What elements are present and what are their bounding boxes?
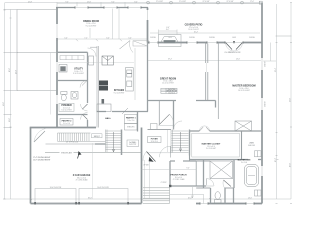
porch west edge x=17 (16, 10, 18, 91)
south wall windows (200, 202, 254, 204)
door arcs master to closet (double) (199, 126, 209, 131)
bathtub (245, 165, 259, 187)
kitchen island (dark) (99, 81, 108, 91)
wall great room south y=100.5 a (148, 100, 177, 102)
svg-text:8'-0 x 6'-0: 8'-0 x 6'-0 (175, 177, 182, 179)
kitchen interior dim x=135 (134, 48, 136, 100)
wall hall west x=87.5 (87, 52, 89, 103)
wall master south y=132.5 (235, 130, 262, 132)
svg-text:10'-9" CEILING HEIGHT: 10'-9" CEILING HEIGHT (33, 160, 50, 162)
master X box (dresser) (235, 121, 252, 131)
patio roofline y=3.5 (148, 3, 262, 5)
svg-text:PANTRY 2: PANTRY 2 (62, 120, 73, 123)
grid bubble 2 (170, 1, 173, 4)
svg-text:3050SH: 3050SH (249, 37, 254, 39)
wall great room south y=100.5 b (196, 100, 216, 102)
svg-text:9'-4": 9'-4" (186, 167, 190, 169)
ticks top (56, 2, 58, 8)
svg-text:10'-0 CLG HGT: 10'-0 CLG HGT (238, 90, 250, 92)
svg-text:17'-0": 17'-0" (250, 1, 255, 3)
dining dim ext x=112.5 (112, 8, 114, 39)
french door marker (233, 41, 235, 44)
wall pantry west x=137.5 (137, 112, 139, 132)
washer box (59, 65, 67, 73)
svg-text:9'-0": 9'-0" (111, 1, 115, 3)
wall kitchen/hall east x=148 lower (147, 43, 149, 112)
rotated window tags east wall (265, 61, 267, 106)
left dim line x=10.5 (10, 10, 12, 200)
window bath east (261, 166, 263, 176)
top dim line y=2.6 (5, 2, 263, 4)
foyer dim arrow y=169.5 (142, 160, 197, 199)
stair top door arc (174, 121, 183, 130)
svg-text:5'-0 x 3'-6: 5'-0 x 3'-6 (63, 123, 70, 125)
wall toilet room x=233.5 low (233, 188, 235, 204)
dining dim ext x=119 (118, 8, 120, 39)
wall closet south y=159.5 b (258, 159, 262, 161)
stair west side rails (105, 130, 107, 153)
door arc utility (88, 48, 97, 57)
wall west exterior x=57 (56, 8, 58, 128)
grid bubble 3 (193, 1, 196, 4)
svg-text:6'-0 FRENCH DOOR: 6'-0 FRENCH DOOR (225, 52, 242, 54)
svg-text:20'-0": 20'-0" (9, 67, 11, 72)
window tags row (150, 37, 254, 39)
wall stairs east x=189.5 (189, 130, 191, 156)
wall utility/powder y=80.5 (57, 80, 88, 82)
wall master west x=218.3 (217, 43, 219, 120)
wall hall west x=87.5 low (87, 120, 89, 128)
fireplace dim arrow (159, 30, 178, 35)
wall garage south y=203.5 (31, 203, 142, 205)
svg-text:FRONT PORCH: FRONT PORCH (170, 174, 186, 176)
svg-text:64'-0": 64'-0" (290, 97, 292, 102)
french door opening (225, 41, 243, 43)
wall south-east y=203.5 (196, 203, 262, 205)
stair west treads (106, 130, 123, 132)
shelf note (60, 151, 74, 154)
thin porch rectangle west (17, 4, 262, 153)
wall porch north y=161 a (170, 160, 175, 162)
porch steps (west side) (143, 187, 170, 204)
stair dim line (167, 130, 169, 152)
great room east wall (double lines) (206, 43, 208, 101)
porch post (169, 185, 171, 187)
garage interior dim (92, 143, 94, 199)
utility counter (60, 56, 84, 60)
wall closet west x=203.5 low (203, 160, 205, 189)
svg-text:4'-0": 4'-0" (166, 29, 170, 31)
svg-text:4'-6 x 5'-0: 4'-6 x 5'-0 (63, 107, 70, 109)
wall closet south y=159.5 (190, 159, 249, 161)
garage door posts (34, 202, 129, 205)
svg-text:5'-0 x 3'-0: 5'-0 x 3'-0 (127, 120, 134, 122)
steps note (92, 134, 103, 138)
interior dim string y=39 kitchen/dining (57, 38, 148, 40)
tick marks on dim lines (4, 3, 293, 204)
sink powder (71, 92, 78, 100)
closet shelving inner outline (192, 133, 240, 157)
wall top-left exterior y=7.5 (56, 7, 148, 9)
fridge box (102, 56, 113, 65)
great room legend table (161, 88, 177, 93)
window N3 great room (207, 41, 217, 43)
porch bottom y=90.5 (18, 90, 58, 92)
svg-text:30'-2": 30'-2" (275, 157, 277, 162)
svg-text:27'-6 5/8": 27'-6 5/8" (156, 1, 164, 3)
toilet master (215, 192, 222, 203)
mud hall line (46, 143, 96, 145)
patio dim y=33 (150, 32, 260, 34)
hall closet (97, 104, 111, 112)
wall closet east x=241.5 (241, 131, 243, 160)
svg-text:3050SH: 3050SH (189, 37, 194, 39)
svg-text:3050SH: 3050SH (209, 37, 214, 39)
porch top y=52.5 (18, 52, 58, 54)
fireplace outer box (159, 35, 182, 47)
wall master west jog x=215.5 (215, 101, 217, 108)
wall garage east x=141.5 (141, 128, 143, 204)
svg-text:2020: 2020 (168, 37, 172, 39)
kitchen west wall (double thin lines) (97, 46, 99, 128)
kitchen counter east (126, 68, 134, 91)
svg-text:27'-6 5/8": 27'-6 5/8" (202, 1, 210, 3)
powder label (59, 103, 74, 111)
great room dim ext x=270 (262, 60, 276, 62)
window west wall (56, 24, 58, 38)
porch step edge line (170, 193, 204, 195)
garage door 1 (35, 189, 76, 204)
broom closet box (89, 56, 94, 65)
utility dim string (58, 62, 134, 64)
wall closet west x=189.5 low (189, 131, 191, 160)
svg-text:6068: 6068 (232, 37, 236, 39)
wall entry west x=210.5 (210, 188, 212, 204)
wall bathroom north y=161 (196, 160, 210, 162)
svg-text:R-21 TYP: R-21 TYP (129, 144, 136, 146)
french doors to patio (226, 43, 243, 50)
bottom dim texts (88, 197, 253, 199)
svg-text:9'-0 CLG HGT: 9'-0 CLG HGT (206, 148, 216, 150)
shower X box (210, 161, 233, 179)
right dim line x=291 (290, 3, 292, 199)
bottom dim line y=199 (3, 198, 291, 200)
great room dim string y=60.5 (148, 60, 263, 62)
front door arc (207, 179, 215, 187)
svg-text:64'-0": 64'-0" (3, 101, 5, 106)
svg-text:4" CONC SLAB: 4" CONC SLAB (76, 179, 89, 182)
kitchen wall stub y=47.2 (90, 46, 97, 48)
garage ceiling break y=154.5 (45, 151, 142, 153)
wall porch west x=170 (169, 161, 171, 187)
svg-text:9'-0 CLG HGT: 9'-0 CLG HGT (61, 110, 71, 112)
wall porch north y=161 b (183, 160, 196, 162)
foyer line y=152.8 (148, 152, 172, 154)
svg-text:6'-0": 6'-0" (106, 37, 110, 39)
wall porch east x=196.2 (195, 161, 197, 186)
wall entry y=188 (196, 187, 210, 189)
stair west east wall (121, 130, 123, 156)
window dining east wall (146, 10, 148, 20)
buffet counter (133, 41, 148, 46)
svg-text:16R@7: 16R@7 (94, 136, 100, 138)
svg-text:3050SH: 3050SH (150, 37, 155, 39)
svg-text:10'-2": 10'-2" (194, 31, 199, 33)
svg-text:FOYER: FOYER (151, 139, 158, 141)
wall foyer west x=173.5 upper (173, 101, 175, 130)
left dim line x=4.5 (4, 3, 6, 199)
grid square marker (259, 1, 262, 4)
wall master south y=131 b (210, 130, 235, 132)
window master east 1 (261, 58, 263, 70)
toilet powder (61, 92, 67, 101)
toilet room door leaf (224, 180, 232, 187)
svg-text:3050SH: 3050SH (265, 61, 267, 66)
svg-text:5'-4": 5'-4" (64, 37, 68, 39)
door arc great room/foyer (159, 114, 170, 125)
rotated dim texts left/right (3, 67, 292, 167)
window W1 (75, 6, 88, 8)
svg-text:12'-0 CLG HGT: 12'-0 CLG HGT (162, 83, 174, 85)
patio north edge y=9.5 (17, 9, 56, 11)
svg-text:LINEN: LINEN (249, 143, 255, 145)
dining vertical dim (89, 28, 91, 38)
svg-text:3050SH: 3050SH (265, 101, 267, 106)
svg-text:17'-4" CEILING HEIGHT: 17'-4" CEILING HEIGHT (33, 157, 50, 159)
wall hall south y=111.5 b (112, 111, 148, 113)
svg-text:19'-2": 19'-2" (168, 58, 173, 60)
wall toilet east x=225 (224, 188, 226, 204)
svg-text:12x24 TILE: 12x24 TILE (168, 89, 176, 91)
wall bath/closet x=234 (233, 160, 235, 189)
svg-text:6'-4": 6'-4" (166, 27, 170, 29)
garage door 2 (79, 189, 128, 204)
foyer label box (148, 137, 162, 143)
svg-text:27'-6 5/8": 27'-6 5/8" (179, 1, 187, 3)
wall y=188 toilet top (225, 187, 235, 189)
svg-text:33'-4": 33'-4" (275, 67, 277, 72)
svg-text:9'-0 CLG HGT: 9'-0 CLG HGT (114, 92, 125, 94)
wall powder south y=114.5 (57, 114, 88, 116)
svg-text:BATHROOM: BATHROOM (238, 159, 251, 162)
hall double door arcs (81, 104, 88, 120)
linen box (255, 151, 262, 157)
grid bubbles on top dim (147, 1, 263, 4)
window W3 (128, 6, 141, 8)
svg-text:12'-0 CLG: 12'-0 CLG (151, 141, 159, 143)
svg-text:8'-4": 8'-4" (134, 1, 138, 3)
powder door arc (80, 81, 87, 88)
svg-text:15'-0 x 8'-0: 15'-0 x 8'-0 (207, 146, 215, 148)
svg-text:36'-0": 36'-0" (88, 197, 93, 199)
svg-text:9'-0 CLG HGT: 9'-0 CLG HGT (73, 73, 84, 75)
stair west arrow (112, 132, 114, 152)
svg-text:14'-0": 14'-0" (248, 197, 253, 199)
boxed note near stairs (127, 140, 139, 147)
window N2 great room (187, 41, 197, 43)
hall dark box (102, 99, 105, 104)
svg-text:22'-8": 22'-8" (28, 1, 33, 3)
svg-text:12-0 CLG: 12-0 CLG (168, 92, 175, 94)
window master east 2 (261, 98, 263, 110)
fireplace hearth (dark bar) (164, 40, 176, 43)
foyer closet box (151, 124, 158, 130)
svg-text:12'-6": 12'-6" (87, 1, 92, 3)
powder west window (56, 95, 58, 104)
window N1 great room (149, 41, 158, 43)
garage entry steps (horizontal run) (58, 133, 106, 141)
garage entry door leaf (34, 131, 45, 142)
wall master south y=131 a (190, 130, 200, 132)
fireplace trapezoid (161, 37, 178, 42)
grid bubble 1 (147, 1, 150, 4)
svg-text:30'-0": 30'-0" (290, 162, 292, 167)
wall hall south y=111.5 (97, 111, 107, 113)
window W2 (104, 6, 117, 8)
wall garage north y=127.5 (30, 127, 96, 129)
door arc dining to patio (130, 41, 133, 53)
main stair arrow (179, 132, 181, 152)
svg-text:UP 16R: UP 16R (143, 165, 149, 167)
svg-text:MASTER CLOSET: MASTER CLOSET (202, 143, 221, 146)
svg-text:20'-0": 20'-0" (188, 197, 193, 199)
wall hall stub y=144 (95, 143, 106, 145)
grid bubble 5 (241, 1, 244, 4)
top-left mini dim string y=3.2 (57, 2, 148, 4)
door leaf hall (122, 108, 128, 114)
svg-text:9'-0 CLG: 9'-0 CLG (241, 162, 248, 164)
basement door leaf (diagonal) (147, 152, 156, 162)
svg-text:12'-8": 12'-8" (16, 69, 18, 74)
svg-text:SHELVES: SHELVES (248, 145, 255, 147)
right dim line x=276.5 (276, 4, 278, 199)
svg-text:7'-2": 7'-2" (84, 37, 88, 39)
wall main north y=42.5 (148, 42, 262, 44)
porch dim arrow (191, 187, 193, 198)
svg-text:9'-0 CLG HGT: 9'-0 CLG HGT (86, 25, 97, 27)
svg-text:27'-6 5/8": 27'-6 5/8" (226, 1, 234, 3)
wall garage west x=30.5 (30, 128, 32, 204)
dim line x=50.5 (50, 53, 52, 115)
svg-text:PANTRY 1: PANTRY 1 (126, 117, 137, 120)
dim vertical x=270.3 (269, 43, 271, 62)
svg-text:SHELVES: SHELVES (127, 127, 134, 129)
svg-text:24'-0": 24'-0" (9, 117, 11, 122)
svg-text:POWDER: POWDER (61, 105, 72, 107)
closet door under stairs (159, 146, 170, 157)
wall stairs east ext (189, 156, 191, 162)
wall dining/patio x=148 (147, 8, 149, 43)
window jamb ticks top wall (75, 6, 243, 43)
wall east exterior x=262 (261, 3, 263, 204)
wall utility north y=52.3 (57, 51, 88, 53)
svg-text:9'-0": 9'-0" (65, 1, 69, 3)
svg-text:4" STEP: 4" STEP (160, 182, 166, 184)
svg-text:HALL: HALL (105, 117, 111, 120)
svg-text:5'-4": 5'-4" (128, 37, 132, 39)
svg-text:5/8" GYP BD CLG: 5/8" GYP BD CLG (66, 141, 79, 143)
svg-text:14'-0": 14'-0" (236, 58, 241, 60)
grid bubble 4 (217, 1, 220, 4)
utility west window (56, 62, 58, 72)
black arrow marker (78, 151, 82, 155)
svg-text:2x6 WALL: 2x6 WALL (129, 141, 136, 144)
wall porch south y=186 (170, 185, 206, 187)
